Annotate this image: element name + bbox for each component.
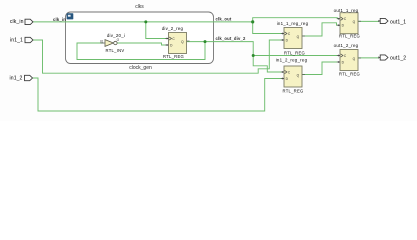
svg-text:clk_in: clk_in	[53, 17, 66, 22]
svg-text:clock_gen: clock_gen	[129, 65, 152, 71]
svg-text:clk_in: clk_in	[10, 19, 24, 25]
svg-text:out1_1: out1_1	[390, 19, 406, 25]
svg-text:clk_out: clk_out	[216, 16, 232, 21]
svg-text:RTL_REG: RTL_REG	[163, 54, 184, 59]
svg-text:in1_2_reg_reg: in1_2_reg_reg	[276, 58, 308, 63]
svg-text:RTL_REG: RTL_REG	[284, 51, 305, 56]
svg-text:in1_1: in1_1	[10, 37, 23, 43]
svg-text:div_2_reg: div_2_reg	[162, 26, 184, 31]
svg-text:in1_2: in1_2	[10, 75, 23, 81]
svg-text:in1_1_reg_reg: in1_1_reg_reg	[277, 21, 309, 26]
svg-text:RTL_REG: RTL_REG	[339, 34, 360, 39]
svg-text:out1_1_reg: out1_1_reg	[334, 8, 359, 13]
svg-text:div_20_i: div_20_i	[107, 33, 125, 38]
svg-text:out1_2_reg: out1_2_reg	[334, 43, 359, 48]
svg-text:clk_out_div_2: clk_out_div_2	[216, 36, 247, 41]
svg-text:clks: clks	[135, 4, 144, 10]
svg-text:out1_2: out1_2	[390, 55, 406, 61]
svg-text:RTL_INV: RTL_INV	[106, 48, 125, 53]
svg-text:RTL_REG: RTL_REG	[283, 89, 304, 94]
svg-text:I0: I0	[100, 39, 103, 43]
svg-text:RTL_REG: RTL_REG	[339, 72, 360, 77]
